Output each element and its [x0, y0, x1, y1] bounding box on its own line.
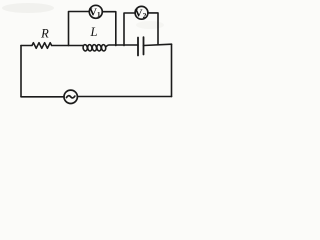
svg-text:R: R: [40, 27, 49, 41]
svg-text:L: L: [90, 25, 98, 39]
